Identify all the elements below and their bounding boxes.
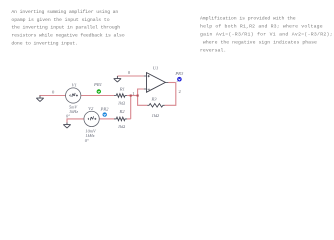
wire R3 right up to output	[165, 83, 176, 106]
wire R1 to inverting node	[127, 95, 138, 97]
svg-text:R2: R2	[118, 109, 125, 114]
wire V2 left to ground corner	[67, 119, 84, 123]
svg-text:V2: V2	[88, 106, 94, 111]
svg-text:Amplification is provided with: Amplification is provided with the	[200, 16, 296, 22]
svg-text:R3: R3	[150, 96, 157, 101]
ground (noninverting input)	[114, 76, 121, 82]
svg-text:resistors while negative feedb: resistors while negative feedback is als…	[11, 33, 124, 39]
wire V1 left to ground	[39, 95, 65, 97]
svg-text:gain Av1=(-R3/R1) for V1 and A: gain Av1=(-R3/R1) for V1 and Av2=(-R3/R2…	[200, 32, 333, 38]
probe PR2	[103, 112, 107, 116]
source V2	[84, 111, 99, 126]
svg-text:PR1: PR1	[93, 82, 102, 87]
svg-text:1kHz: 1kHz	[69, 109, 78, 114]
svg-text:1kΩ: 1kΩ	[118, 100, 126, 105]
svg-text:help of both R1,R2 and R3; whe: help of both R1,R2 and R3; where voltage	[200, 24, 323, 30]
probe PR3	[177, 77, 182, 82]
source V1	[66, 88, 81, 103]
svg-text:R1: R1	[119, 86, 125, 91]
svg-text:PR3: PR3	[174, 71, 184, 76]
svg-text:opamp is given the input signa: opamp is given the input signals to	[11, 17, 109, 23]
probe PR1	[97, 89, 101, 93]
wire opamp output	[168, 82, 175, 84]
op-amp U1	[144, 73, 169, 93]
resistor R2	[114, 117, 127, 121]
resistor R1	[114, 94, 127, 98]
svg-text:reversal.: reversal.	[200, 47, 226, 53]
ground (below V2)	[63, 123, 70, 129]
junction node at R2 branch	[130, 95, 132, 97]
value V1	[66, 105, 78, 119]
svg-text:U1: U1	[153, 65, 159, 70]
svg-text:An inverting summing amplifier: An inverting summing amplifier using an	[11, 9, 118, 15]
wire node down to R3 left	[138, 96, 148, 106]
svg-text:done to inverting input.: done to inverting input.	[11, 41, 78, 47]
resistor R3	[147, 104, 164, 108]
ground (left of V1)	[36, 96, 43, 102]
wire noninverting pin to ground	[117, 75, 143, 77]
comment text block left	[11, 9, 124, 47]
svg-text:1kΩ: 1kΩ	[118, 124, 126, 129]
svg-text:the inverting input in paralle: the inverting input in parallel through	[11, 25, 120, 31]
svg-text:PR2: PR2	[100, 106, 110, 111]
svg-text:1kΩ: 1kΩ	[152, 113, 160, 118]
wire R2 right to junction	[127, 118, 131, 120]
wire V2 right to R2	[99, 118, 114, 120]
svg-text:0°: 0°	[66, 113, 70, 118]
svg-text:0°: 0°	[85, 138, 89, 143]
svg-text:V1: V1	[72, 82, 77, 87]
comment text block right	[200, 16, 333, 54]
wire node up to inverting pin	[138, 89, 144, 96]
value V2	[85, 129, 97, 143]
junction inverting node	[137, 95, 139, 97]
wire junction down to R2 row	[130, 96, 132, 119]
wire V1 right to R1	[81, 95, 114, 97]
svg-text:where the negative sign indica: where the negative sign indicates phase	[203, 39, 317, 45]
